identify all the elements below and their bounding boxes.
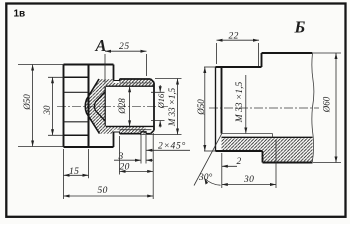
hex head outline — [64, 65, 114, 148]
bore lines d28 — [106, 86, 154, 126]
dim d50 A — [18, 65, 64, 147]
dim 20 A — [120, 133, 154, 199]
step B — [261, 53, 263, 67]
internal bore line bottom — [222, 136, 313, 138]
svg-text:Ø60: Ø60 — [322, 96, 332, 113]
bottom edge d50 B — [216, 150, 263, 152]
hole line top in hex — [64, 91, 89, 93]
svg-text:20: 20 — [120, 163, 130, 173]
dim M33x1.5 A — [140, 79, 182, 135]
chamfer 2x45 bottom — [151, 130, 154, 133]
hatch region A (section material) — [85, 79, 154, 134]
svg-text:Б: Б — [294, 18, 306, 37]
chamfer 2x45 top — [151, 79, 154, 82]
svg-text:3: 3 — [118, 152, 124, 162]
svg-text:Ø50: Ø50 — [22, 94, 32, 111]
svg-text:1в: 1в — [14, 9, 26, 20]
dim d60 B — [313, 53, 341, 163]
svg-text:Ø50: Ø50 — [196, 99, 206, 116]
svg-text:М 33 ×1,5: М 33 ×1,5 — [235, 82, 245, 124]
dome outer cone arc — [85, 79, 99, 134]
thread end B — [272, 134, 274, 138]
bottom edge d60 B — [263, 162, 313, 164]
dim 25 A — [105, 51, 147, 83]
thread minor thin lines — [120, 83, 152, 130]
flange right face — [113, 65, 115, 148]
groove 3 wide — [141, 132, 151, 134]
svg-text:25: 25 — [119, 42, 130, 52]
dim 30 B — [222, 140, 276, 188]
bottom step B — [262, 151, 264, 163]
svg-text:А: А — [95, 36, 107, 55]
axis line A — [57, 105, 168, 107]
dome inner cone arc — [95, 92, 106, 122]
thread relief notch — [114, 79, 120, 134]
angle arc — [205, 179, 221, 186]
hex facet line top — [64, 76, 89, 78]
dim 15 A — [64, 149, 89, 199]
cone 30 slant line — [194, 134, 222, 186]
dim 22 B — [217, 40, 260, 66]
internal thread bottom crest — [222, 133, 273, 135]
svg-text:М 33 ×1,5: М 33 ×1,5 — [167, 87, 177, 127]
svg-text:50: 50 — [98, 186, 108, 196]
hex-flange boundary — [88, 65, 90, 148]
svg-text:22: 22 — [229, 32, 239, 42]
left face B — [215, 67, 217, 151]
leader 2x45 A — [146, 149, 190, 151]
dim 3 A — [114, 135, 153, 164]
hex facet line bottom — [64, 134, 89, 136]
dim d28 A — [129, 86, 131, 126]
hatch region B bottom wall — [222, 137, 263, 151]
recess face B — [221, 67, 223, 134]
bore end face — [104, 86, 106, 126]
svg-text:2×45°: 2×45° — [158, 141, 186, 152]
svg-text:30: 30 — [243, 175, 254, 185]
dim d16 A — [151, 85, 165, 128]
dim d50 B — [204, 67, 206, 151]
hole line bottom in hex — [64, 121, 89, 123]
dim 50 A — [64, 195, 154, 197]
svg-text:2: 2 — [237, 157, 242, 167]
axis line B — [209, 107, 319, 109]
thread major lines — [120, 79, 151, 134]
svg-text:Ø16: Ø16 — [156, 93, 166, 109]
top edge d60 B — [262, 52, 313, 54]
dim 30 A — [48, 77, 64, 135]
dim M33x1.5 B — [245, 75, 247, 134]
break line B — [312, 53, 314, 163]
svg-text:Ø28: Ø28 — [117, 98, 127, 115]
right face A — [153, 82, 155, 130]
svg-text:15: 15 — [69, 167, 79, 177]
svg-text:30: 30 — [42, 105, 52, 116]
top edge d50 B — [216, 66, 262, 68]
dim 2 B — [222, 153, 237, 169]
